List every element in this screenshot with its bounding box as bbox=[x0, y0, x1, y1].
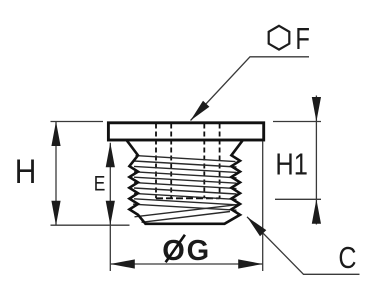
thread crest lines bbox=[133, 156, 238, 223]
leader line F bbox=[191, 57, 310, 121]
arrow H bottom bbox=[51, 201, 60, 226]
arrow H top bbox=[51, 122, 60, 147]
arrow H1 bottom (outside, pointing up) bbox=[312, 199, 321, 224]
arrow F leader bbox=[191, 101, 210, 121]
dimension line H1 bbox=[315, 96, 317, 225]
svg-text:F: F bbox=[295, 21, 310, 56]
svg-text:C: C bbox=[338, 240, 356, 274]
dimension line ØG bbox=[110, 263, 262, 265]
svg-text:E: E bbox=[94, 172, 106, 196]
leader line C bbox=[247, 217, 360, 274]
hex socket hidden line left outer bbox=[155, 124, 157, 199]
hex socket hidden line left inner bbox=[170, 124, 172, 199]
dimension line E / ØG left extension line bbox=[109, 143, 111, 271]
arrow E top bbox=[106, 143, 115, 168]
hex socket bottom hidden line bbox=[156, 197, 220, 199]
hexagon socket symbol bbox=[269, 26, 290, 50]
plug head (top flange) bbox=[108, 123, 263, 140]
H top extension line bbox=[51, 121, 104, 123]
arrow C leader bbox=[247, 217, 266, 237]
hex socket hidden line right inner bbox=[203, 124, 205, 199]
arrow ØG right bbox=[238, 259, 263, 268]
arrow E bottom bbox=[106, 201, 115, 226]
svg-text:H1: H1 bbox=[275, 147, 307, 182]
H1 bottom extension line bbox=[275, 198, 321, 200]
plug body outline with thread zigzag bbox=[127, 140, 243, 224]
arrow ØG left bbox=[110, 259, 135, 268]
hex socket hidden line right outer bbox=[219, 124, 221, 199]
dimension line H bbox=[55, 122, 57, 226]
diameter slash of ØG bbox=[166, 235, 185, 262]
arrow H1 top (outside, pointing down) bbox=[312, 97, 321, 122]
H1 top extension line bbox=[273, 121, 321, 123]
ØG right extension line bbox=[262, 142, 264, 272]
H/E bottom extension line bbox=[51, 224, 130, 226]
svg-text:OG: OG bbox=[162, 235, 209, 267]
svg-text:H: H bbox=[15, 152, 37, 190]
